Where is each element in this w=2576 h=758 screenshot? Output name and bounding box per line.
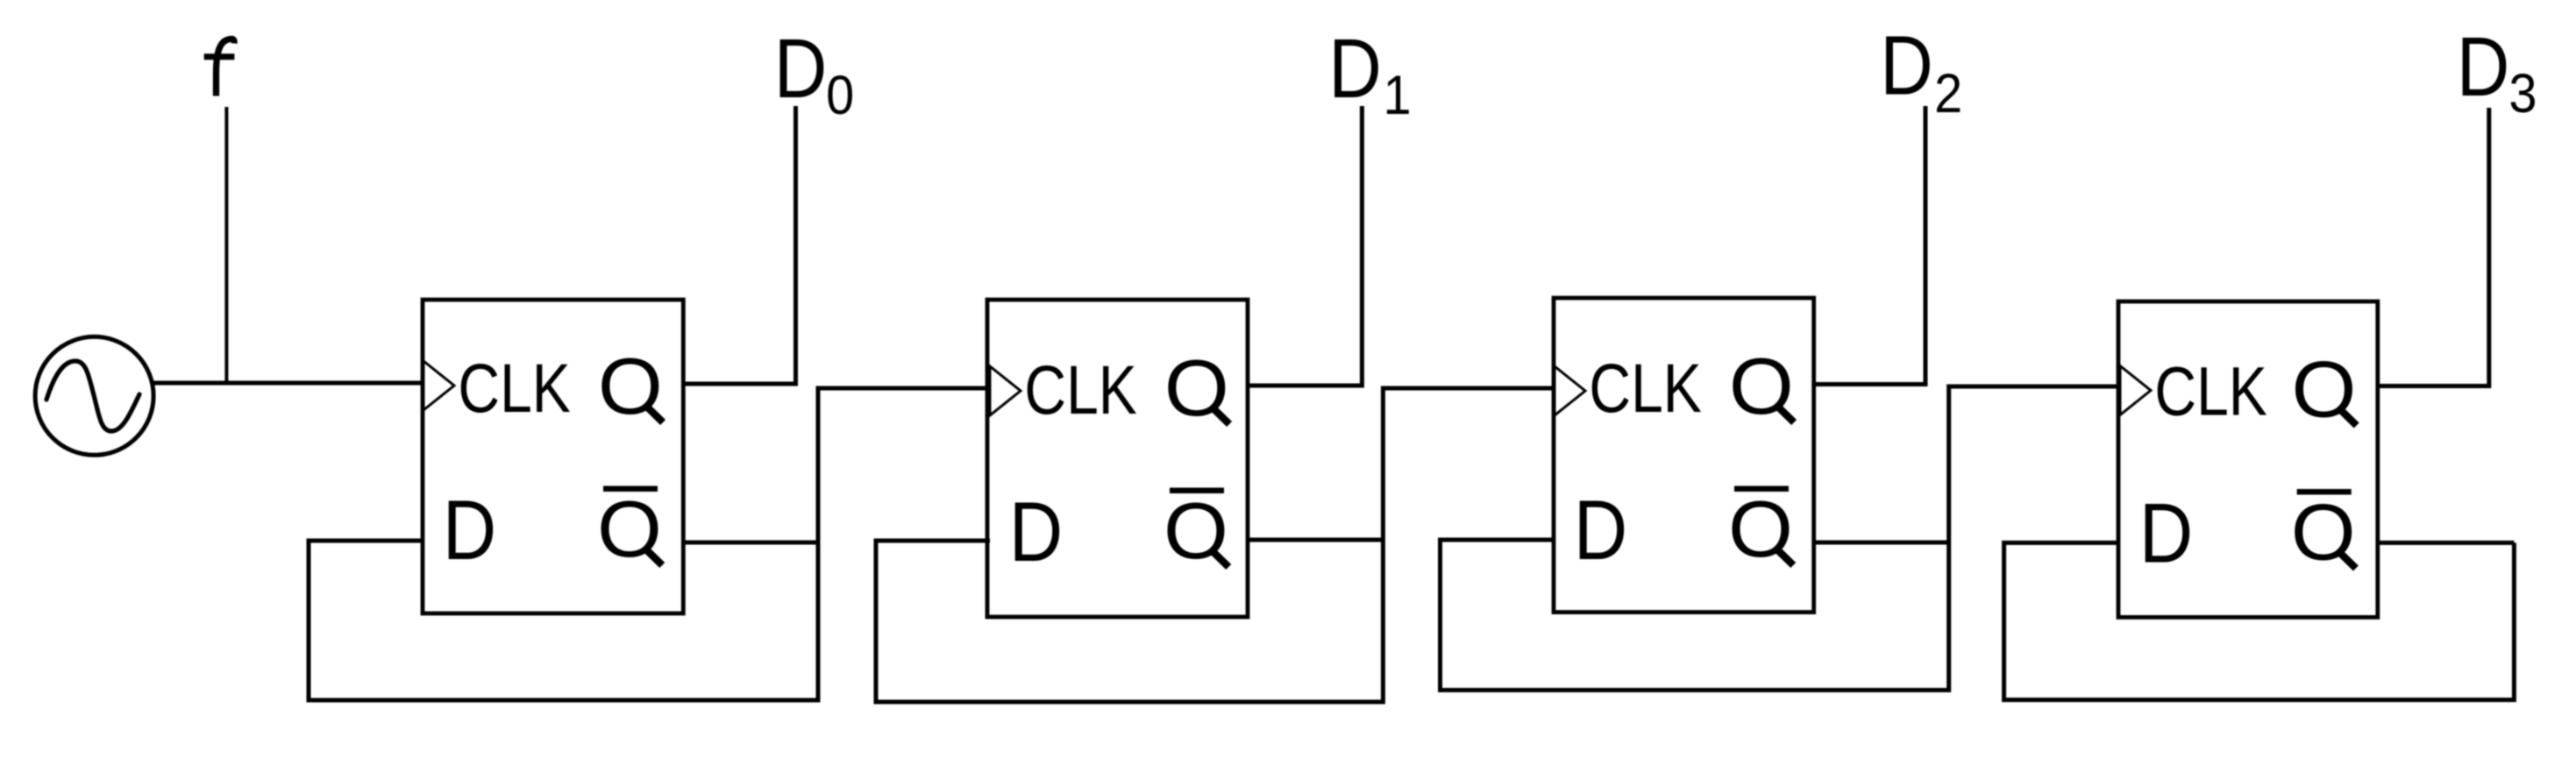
svg-text:D: D (2139, 485, 2194, 580)
wire f label stub (224, 107, 228, 383)
flip-flop FF2 body (987, 300, 1248, 617)
wire FF2 Q output to node D1 (1248, 106, 1362, 386)
FF2 clock edge triangle (990, 366, 1021, 415)
node D0 label (774, 22, 854, 126)
svg-text:D: D (1880, 18, 1933, 113)
wire FF1 Q output to node D0 (683, 106, 796, 384)
svg-text:1: 1 (1384, 64, 1412, 126)
svg-text:D: D (2457, 20, 2510, 115)
wire FF2 feedback loop: D input, down, along bottom, up to FF3 CLK (876, 388, 1555, 702)
FF3 pin label D (1574, 483, 1628, 577)
wire FF3 feedback loop: D input, down, along bottom, up to FF4 CLK (1441, 386, 2119, 691)
svg-text:2: 2 (1934, 62, 1962, 124)
wire net f: source to FF1 CLK (153, 381, 423, 386)
svg-text:CLK: CLK (1589, 350, 1701, 427)
FF4 clock edge triangle (2120, 366, 2151, 415)
FF1 pin label Q-bar (597, 485, 662, 574)
FF1 pin label Q (598, 342, 663, 431)
sine source V1 (35, 336, 153, 455)
FF2 pin label Q (1164, 344, 1229, 433)
node D3 label (2457, 20, 2537, 124)
svg-text:D: D (1009, 485, 1064, 579)
svg-text:0: 0 (826, 64, 854, 126)
flip-flop FF1 body (423, 300, 683, 613)
FF1 pin label D (443, 483, 497, 577)
wire FF4 feedback loop: D input, down, along bottom, up to Q-bar (2004, 542, 2515, 699)
svg-text:D: D (774, 22, 828, 117)
FF4 pin label CLK (2154, 353, 2266, 430)
svg-text:CLK: CLK (1024, 351, 1136, 429)
FF2 pin label D (1009, 485, 1064, 579)
FF4 pin label Q (2292, 344, 2357, 434)
FF1 clock edge triangle (423, 361, 454, 410)
wire FF2 Q-bar output segment (1249, 538, 1383, 542)
svg-text:3: 3 (2508, 62, 2537, 124)
wire FF3 Q output to node D2 (1813, 106, 1925, 385)
FF2 pin label Q-bar (1163, 486, 1228, 576)
FF3 clock edge triangle (1555, 366, 1585, 415)
FF4 pin label Q-bar (2291, 487, 2356, 577)
svg-text:CLK: CLK (2154, 353, 2266, 430)
svg-text:D: D (443, 483, 497, 577)
FF3 pin label CLK (1589, 350, 1701, 427)
node D1 label (1328, 22, 1411, 126)
FF1 pin label CLK (458, 350, 570, 427)
wire FF3 Q-bar output segment (1815, 541, 1949, 545)
svg-text:D: D (1574, 483, 1628, 577)
FF3 pin label Q (1729, 342, 1794, 431)
flip-flop FF3 body (1554, 298, 1814, 613)
wire FF4 Q-bar output segment (2378, 541, 2514, 545)
svg-text:D: D (1328, 22, 1382, 117)
FF2 pin label CLK (1024, 351, 1136, 429)
wire FF1 feedback loop: D input, down, along bottom, up to FF2 CLK (309, 388, 990, 700)
wire FF4 Q output to node D3 (2378, 108, 2489, 386)
node D2 label (1880, 18, 1962, 124)
wire FF1 Q-bar output segment (683, 541, 818, 545)
node f label (204, 39, 235, 96)
FF3 pin label Q-bar (1728, 485, 1793, 574)
FF4 pin label D (2139, 485, 2194, 580)
flip-flop FF4 body (2118, 301, 2378, 617)
svg-text:CLK: CLK (458, 350, 570, 427)
